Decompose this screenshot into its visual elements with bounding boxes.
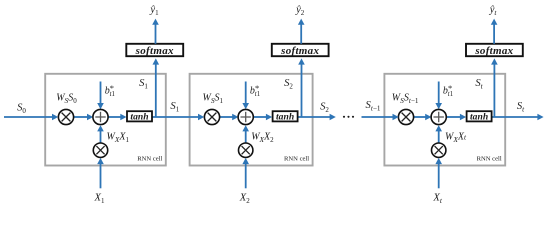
wire tanh2 junction up to softmax2 [298,58,305,117]
wire bias arrow into add2 [242,82,249,110]
ellipsis between cells [343,116,354,118]
wire add1 to tanh1 [108,114,126,121]
svg-text:softmax: softmax [474,45,513,57]
wire softmax3 up to yhat3 [491,19,498,44]
svg-text:t1: t1 [255,91,260,98]
add node cell 1 [93,109,108,124]
label b*t1 cell 1 [105,83,115,98]
svg-text:RNN cell: RNN cell [137,156,162,163]
wire tanh1 out to cell2 (S1) [152,114,204,121]
svg-text:tanh: tanh [276,112,294,123]
wire lower multiply up to add2 [242,125,249,143]
wire X1 input arrow [97,158,104,188]
wire multiply1 to add1 [74,114,94,121]
tanh box 2 [273,111,298,122]
svg-text:tanh: tanh [470,112,488,123]
tanh box 3 [467,111,492,122]
wire tanh3 out (St) [492,114,544,121]
wire tanh2 out (S2) [298,114,336,121]
svg-text:ŷ2: ŷ2 [295,4,305,17]
wire add3 to tanh3 [446,114,466,121]
tanh box 1 [127,111,152,122]
svg-text:t1: t1 [110,91,115,98]
svg-text:S2: S2 [320,102,329,115]
svg-text:S0: S0 [17,103,26,116]
softmax box 1 [126,44,183,57]
wire multiply2 to add2 [220,114,239,121]
svg-text:St: St [517,101,525,114]
wire S0 input arrow [4,114,58,121]
multiply node (state) cell 3 [398,109,413,124]
wire lower multiply up to add1 [97,125,104,143]
label b*t1 cell 2 [250,83,260,98]
svg-text:tanh: tanh [130,112,148,123]
svg-text:X2: X2 [239,192,250,205]
wire bias arrow into add3 [435,82,442,110]
svg-text:t1: t1 [448,91,453,98]
svg-text:S1: S1 [170,101,179,114]
add node cell 3 [431,109,446,124]
wire tanh3 junction up to softmax3 [491,58,498,117]
svg-text:X1: X1 [94,192,105,205]
add node cell 2 [238,109,253,124]
svg-text:RNN cell: RNN cell [477,156,502,163]
multiply node (state) cell 1 [58,109,73,124]
label b*t1 cell 3 [443,83,453,98]
RNN cell 3 box [384,74,505,166]
multiply node (input) cell 2 [239,143,253,157]
svg-text:RNN cell: RNN cell [284,156,309,163]
RNN cell 2 box [190,74,313,166]
RNN cell 1 box [45,74,166,166]
multiply node (input) cell 3 [432,143,446,157]
wire bias arrow into add1 [97,82,104,110]
wire softmax1 up to yhat1 [152,19,159,44]
multiply node (state) cell 2 [204,109,219,124]
svg-text:softmax: softmax [135,45,174,57]
svg-text:ŷ1: ŷ1 [149,4,159,17]
wire lower multiply up to add3 [435,125,442,143]
wire multiply3 to add3 [414,114,432,121]
softmax box 2 [272,44,329,57]
wire tanh1 junction up to softmax1 [153,58,160,117]
svg-text:St−1: St−1 [366,100,381,113]
wire St-1 into cell3 [362,114,399,121]
wire X3 input arrow [435,158,442,188]
svg-text:Xt: Xt [432,192,442,205]
wire X2 input arrow [242,158,249,188]
wire softmax2 up to yhat2 [298,19,305,44]
softmax box 3 [466,44,523,57]
svg-text:ŷt: ŷt [489,4,498,17]
svg-text:softmax: softmax [280,45,319,57]
multiply node (input) cell 1 [93,143,107,157]
wire add2 to tanh2 [253,114,272,121]
